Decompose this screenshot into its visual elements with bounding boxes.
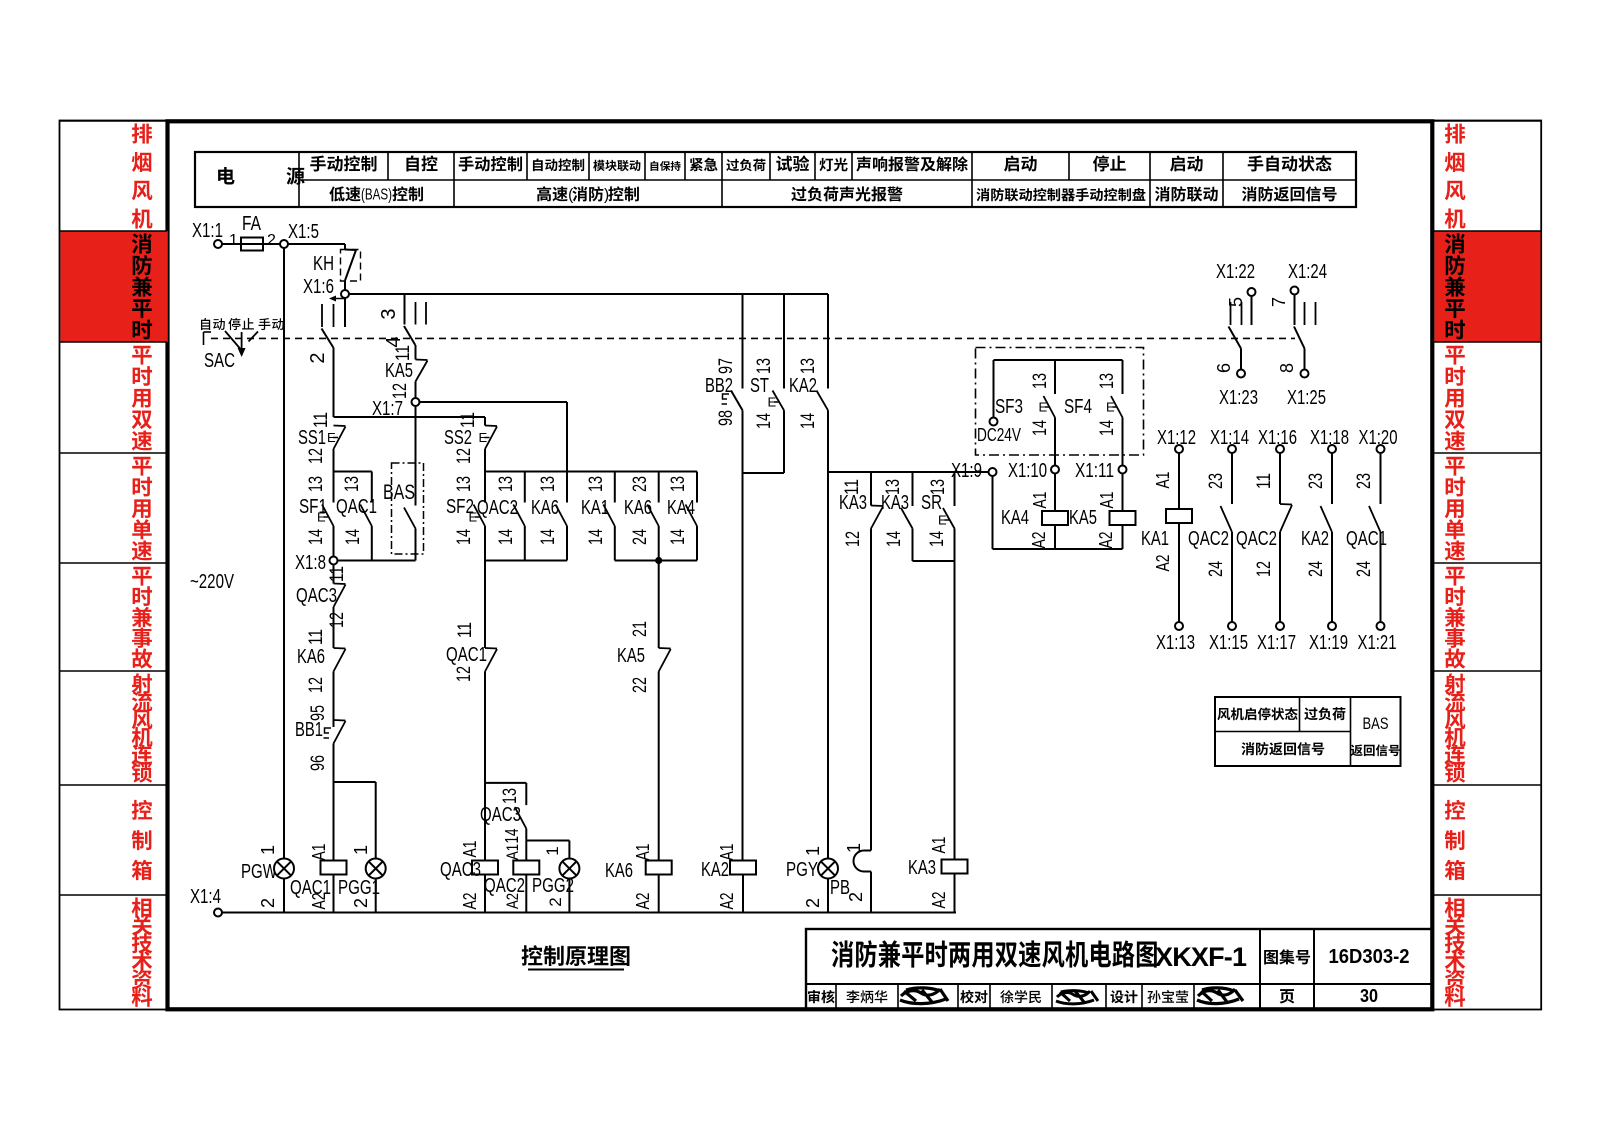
svg-text:~220V: ~220V: [190, 571, 234, 593]
coil KA6: [658, 672, 660, 861]
svg-text:1: 1: [543, 846, 562, 855]
svg-text:X1:10: X1:10: [1008, 460, 1047, 482]
svg-text:X1:23: X1:23: [1219, 387, 1258, 409]
svg-text:X1:17: X1:17: [1257, 632, 1296, 654]
wire X1:5 to KH: [288, 243, 345, 245]
svg-text:14: 14: [538, 529, 559, 545]
svg-text:QAC1: QAC1: [290, 877, 331, 899]
svg-text:11: 11: [393, 345, 414, 361]
selector contact 7-8: [1294, 295, 1296, 326]
svg-text:XKXF-1: XKXF-1: [1155, 942, 1247, 972]
svg-text:BAS: BAS: [383, 481, 415, 504]
contact KA2 23-24: [1331, 453, 1333, 504]
relay contact KA2 13-14: [827, 294, 829, 389]
svg-text:2: 2: [258, 898, 278, 908]
svg-text:A1: A1: [309, 844, 329, 861]
svg-text:24: 24: [1354, 561, 1375, 577]
svg-text:8: 8: [1277, 363, 1297, 373]
svg-text:SF3: SF3: [995, 396, 1023, 418]
caption 控制原理图: [522, 945, 543, 965]
svg-text:12: 12: [454, 666, 475, 682]
svg-text:PGG1: PGG1: [338, 877, 380, 899]
svg-text:SF1: SF1: [299, 496, 327, 518]
svg-text:SF2: SF2: [446, 496, 474, 518]
buzzer PB: [870, 529, 872, 851]
svg-text:KA5: KA5: [1069, 507, 1097, 529]
main title: [832, 940, 854, 967]
svg-text:13: 13: [496, 476, 517, 492]
svg-text:A1: A1: [1153, 472, 1173, 489]
actuator arrow at X1:6: [333, 298, 344, 300]
SAC contact 3-4: [404, 294, 406, 325]
thermal element KH: [341, 250, 361, 282]
svg-text:12: 12: [454, 448, 475, 464]
svg-text:14: 14: [798, 413, 819, 429]
svg-text:(BAS): (BAS): [361, 187, 392, 204]
svg-text:A2: A2: [1029, 532, 1049, 549]
svg-text:BB1: BB1: [295, 719, 323, 741]
svg-text:QAC1: QAC1: [336, 496, 377, 518]
svg-text:14: 14: [668, 529, 689, 545]
coil KA5: [1122, 474, 1124, 512]
svg-text:PGW: PGW: [241, 861, 277, 883]
svg-text:13: 13: [1030, 373, 1051, 389]
svg-text:X1:22: X1:22: [1216, 261, 1255, 283]
title block: [806, 929, 1432, 1009]
svg-text:98: 98: [716, 410, 737, 426]
X1:8 bus: [338, 560, 416, 562]
terminal X1:15: [1228, 622, 1236, 630]
branch to QAC3 13-14: [485, 782, 526, 784]
relay contact KA6 13-14: [566, 472, 568, 503]
signature 2: [1056, 991, 1098, 1004]
svg-text:13: 13: [306, 476, 327, 492]
relay contact KA5 21-22 NC: [658, 561, 660, 649]
svg-text:X1:19: X1:19: [1309, 632, 1348, 654]
svg-text:KA5: KA5: [385, 360, 413, 382]
svg-text:1: 1: [258, 845, 278, 855]
fuse FA: [241, 243, 263, 245]
function header table: [195, 152, 1356, 207]
branch and lamp PGG2: [526, 840, 569, 842]
terminal X1:23: [1237, 370, 1245, 378]
BAS remote contact box: [392, 463, 424, 554]
signature 1: [900, 988, 948, 1004]
svg-text:ST: ST: [750, 375, 769, 397]
SAC mechanical linkage dashed line: [211, 337, 1295, 339]
coil KA1 (fire linkage): [1178, 453, 1180, 509]
wire X1:1 to fuse: [222, 243, 241, 245]
SAC contact 2: [344, 298, 346, 327]
terminal X1:25: [1301, 370, 1309, 378]
svg-text:A1: A1: [717, 844, 737, 861]
terminal X1:19: [1328, 622, 1336, 630]
wire fuse to X1:5: [263, 243, 280, 245]
svg-text:A2: A2: [633, 893, 653, 910]
wire X1:7 right and down to KA6 column: [420, 401, 568, 403]
terminal X1:9: [989, 468, 997, 476]
svg-text:1: 1: [351, 845, 371, 855]
svg-text:12: 12: [327, 612, 348, 628]
button SF3 13-14: [1054, 360, 1056, 394]
svg-text:12: 12: [843, 531, 864, 547]
svg-text:1: 1: [803, 846, 823, 856]
right sidebar category column: [1434, 120, 1541, 122]
svg-text:A2: A2: [1096, 532, 1116, 549]
svg-text:KA2: KA2: [1301, 528, 1329, 550]
svg-text:X1:13: X1:13: [1156, 632, 1195, 654]
terminal X1:21: [1377, 622, 1385, 630]
svg-text:X1:1: X1:1: [192, 220, 223, 242]
svg-text:22: 22: [630, 677, 651, 693]
svg-text:KA6: KA6: [605, 860, 633, 882]
lamp PGG1: [375, 782, 377, 859]
svg-text:14: 14: [306, 529, 327, 545]
lamp PGY: [827, 472, 829, 859]
relay contact KA3 13-14: [912, 472, 914, 506]
svg-text:KA1: KA1: [581, 497, 609, 519]
svg-text:KA1: KA1: [1141, 528, 1169, 550]
svg-text:X1:9: X1:9: [951, 460, 982, 482]
terminal X1:1: [214, 240, 222, 248]
svg-text:12: 12: [390, 383, 411, 399]
fire控制盘 dash-dot box: [976, 348, 1144, 456]
terminal X1:13: [1175, 622, 1183, 630]
branch to PGG1: [334, 781, 376, 783]
svg-text:2: 2: [546, 897, 565, 906]
control bus (X1:7 level): [334, 416, 486, 418]
svg-text:A1: A1: [633, 844, 653, 861]
svg-text:14: 14: [502, 829, 522, 844]
svg-text:11: 11: [306, 629, 327, 645]
svg-text:14: 14: [586, 529, 607, 545]
selector switch SAC labels: [201, 318, 210, 330]
signature 3: [1197, 988, 1243, 1004]
svg-text:KA5: KA5: [617, 645, 645, 667]
svg-text:KA4: KA4: [667, 497, 695, 519]
svg-text:2: 2: [803, 898, 823, 908]
svg-text:KA6: KA6: [624, 497, 652, 519]
svg-text:13: 13: [538, 476, 559, 492]
svg-text:SS1: SS1: [298, 427, 326, 449]
svg-text:23: 23: [1306, 473, 1327, 489]
svg-text:QAC2: QAC2: [1188, 528, 1229, 550]
svg-text:A1: A1: [1030, 492, 1050, 509]
svg-text:11: 11: [311, 412, 332, 428]
svg-text:SAC: SAC: [204, 350, 235, 372]
svg-text:30: 30: [1360, 986, 1378, 1006]
wire SR to coil KA3: [954, 561, 956, 860]
svg-text:A2: A2: [503, 893, 522, 909]
svg-text:96: 96: [308, 755, 329, 771]
bus from X1:6 right: [349, 293, 828, 295]
stop button ST 13-14: [783, 294, 785, 389]
svg-text:A2: A2: [929, 892, 949, 909]
svg-text:3: 3: [378, 308, 400, 319]
svg-text:QAC1: QAC1: [446, 644, 487, 666]
svg-text:PGY: PGY: [786, 859, 818, 881]
terminal X1:4 and bottom bus: [214, 909, 222, 917]
wire KH to X1:6: [344, 281, 346, 291]
relay contact KA1 13-14: [614, 472, 616, 503]
relay contact KA6 23-24: [658, 472, 660, 503]
svg-text:14: 14: [343, 529, 364, 545]
wire X1:7 to control bus: [415, 406, 417, 417]
svg-text:KA3: KA3: [908, 857, 936, 879]
svg-text:A1: A1: [1097, 492, 1117, 509]
svg-text:X1:8: X1:8: [295, 552, 326, 574]
group bottom bus with junction: [615, 560, 697, 562]
svg-text:DC24V: DC24V: [977, 425, 1021, 445]
svg-text:13: 13: [1097, 373, 1118, 389]
contactor contact QAC3 13-14: [525, 783, 527, 805]
svg-text:2: 2: [267, 232, 276, 249]
svg-text:QAC2: QAC2: [1236, 528, 1277, 550]
svg-text:KA4: KA4: [1001, 507, 1029, 529]
svg-text:SS2: SS2: [444, 427, 472, 449]
svg-text:X1:5: X1:5: [288, 221, 319, 243]
svg-text:QAC2: QAC2: [477, 497, 518, 519]
terminal X1:10: [1051, 466, 1059, 474]
terminal X1:7: [412, 398, 420, 406]
svg-text:14: 14: [496, 529, 517, 545]
svg-text:E: E: [938, 513, 947, 528]
terminal X1:11: [1119, 466, 1127, 474]
terminal X1:5: [280, 240, 288, 248]
svg-text:E: E: [479, 430, 488, 445]
svg-text:2: 2: [351, 898, 371, 908]
svg-text:KA3: KA3: [881, 492, 909, 514]
svg-text:X1:15: X1:15: [1209, 632, 1248, 654]
svg-text:KA6: KA6: [297, 646, 325, 668]
svg-text:A2: A2: [717, 893, 737, 910]
relay contact KA3 11-12 NC: [870, 472, 872, 506]
thermal relay contact BB2 97-98: [742, 294, 744, 389]
svg-text:X1:6: X1:6: [303, 276, 334, 298]
contactor contact QAC3 11-12 NC: [333, 565, 335, 584]
svg-text:(: (: [568, 187, 574, 204]
svg-text:11: 11: [455, 622, 476, 638]
alarm bus to X1:9: [828, 471, 989, 473]
svg-text:2: 2: [307, 352, 329, 363]
svg-text:14: 14: [454, 529, 475, 545]
svg-text:A2: A2: [1153, 555, 1173, 572]
svg-text:KA6: KA6: [531, 497, 559, 519]
svg-text:6: 6: [1214, 363, 1234, 373]
X1:9 down to coil return bus: [992, 476, 994, 549]
svg-text:24: 24: [630, 529, 651, 545]
svg-text:14: 14: [1030, 420, 1051, 436]
coil KA4: [1054, 474, 1056, 512]
svg-text:PGG2: PGG2: [532, 875, 574, 897]
svg-text:2: 2: [846, 892, 866, 902]
svg-text:13: 13: [798, 358, 819, 374]
svg-text:13: 13: [754, 358, 775, 374]
svg-text:X1:21: X1:21: [1358, 632, 1397, 654]
svg-text:11: 11: [327, 566, 348, 582]
svg-text:13: 13: [668, 476, 689, 492]
SAC position arrows: [225, 331, 243, 352]
svg-text:23: 23: [1354, 473, 1375, 489]
svg-text:24: 24: [1206, 561, 1227, 577]
svg-text:97: 97: [716, 358, 737, 374]
contactor contact QAC2 13-14: [524, 472, 526, 503]
svg-text:13: 13: [500, 788, 521, 804]
svg-text:23: 23: [630, 476, 651, 492]
left sidebar category column: [60, 120, 167, 122]
svg-text:SF4: SF4: [1064, 396, 1092, 418]
contact QAC1 23-24: [1380, 453, 1382, 504]
svg-text:24: 24: [1306, 561, 1327, 577]
svg-text:14: 14: [754, 413, 775, 429]
BAS signal table: [1215, 697, 1401, 766]
svg-text:A2: A2: [460, 893, 480, 910]
svg-text:23: 23: [1206, 473, 1227, 489]
row1 bottom bus: [485, 560, 567, 562]
svg-text:A1: A1: [460, 841, 480, 858]
svg-text:14: 14: [1097, 420, 1118, 436]
svg-text:FA: FA: [242, 213, 262, 235]
svg-text:KA2: KA2: [789, 375, 817, 397]
svg-text:13: 13: [342, 476, 363, 492]
terminal X1:8: [330, 557, 338, 565]
svg-text:QAC3: QAC3: [480, 804, 521, 826]
svg-text:1: 1: [229, 232, 238, 249]
svg-text:X1:4: X1:4: [190, 886, 221, 908]
svg-text:QAC3: QAC3: [440, 859, 481, 881]
contact QAC2 23-24: [1231, 453, 1233, 504]
svg-text:11: 11: [1254, 473, 1275, 489]
relay contact KA4 13-14: [696, 472, 698, 503]
svg-text:X1:24: X1:24: [1288, 261, 1327, 283]
svg-text:A1: A1: [929, 837, 949, 854]
svg-text:X1:25: X1:25: [1287, 387, 1326, 409]
wire BB2 to coil KA2: [742, 473, 744, 861]
parallel bus row1: [485, 471, 697, 473]
svg-text:21: 21: [630, 621, 651, 637]
terminal X1:17: [1276, 622, 1284, 630]
BB2-ST bottom link: [743, 472, 785, 474]
terminal X1:6: [341, 290, 349, 298]
node and branch to QAC1 13-14: [334, 471, 372, 473]
svg-text:KA3: KA3: [839, 492, 867, 514]
svg-text:X1:11: X1:11: [1075, 460, 1114, 482]
contactor contact QAC1 13-14: [371, 472, 373, 503]
svg-text:12: 12: [306, 448, 327, 464]
svg-text:5: 5: [1226, 297, 1246, 307]
svg-text:16D303-2: 16D303-2: [1329, 946, 1410, 968]
svg-text:14: 14: [927, 531, 948, 547]
svg-text:E: E: [327, 430, 336, 445]
main inner frame: [168, 121, 1433, 1009]
outer drawing frame: [60, 121, 1542, 1010]
reset button SR 13-14: [954, 472, 956, 506]
left supply bus from X1:5 down: [283, 248, 285, 859]
svg-text:E: E: [1106, 400, 1115, 415]
svg-text:BB2: BB2: [705, 375, 733, 397]
svg-text:12: 12: [1254, 561, 1275, 577]
svg-text:13: 13: [454, 476, 475, 492]
svg-text:12: 12: [306, 677, 327, 693]
svg-text:KA2: KA2: [701, 859, 729, 881]
svg-text:E: E: [1039, 400, 1048, 415]
svg-text:A1: A1: [503, 844, 522, 860]
DC24V supply: [994, 359, 1123, 361]
svg-text:KH: KH: [313, 253, 334, 275]
svg-text:11: 11: [458, 412, 479, 428]
selector contact 5-6: [1251, 296, 1253, 325]
svg-text:QAC3: QAC3: [296, 585, 337, 607]
contact QAC2 11-12 NC: [1279, 453, 1281, 504]
svg-text:7: 7: [1269, 297, 1289, 307]
svg-text:14: 14: [884, 531, 905, 547]
svg-text:13: 13: [586, 476, 607, 492]
svg-text:BAS: BAS: [1363, 714, 1389, 733]
svg-text:SR: SR: [921, 492, 942, 514]
